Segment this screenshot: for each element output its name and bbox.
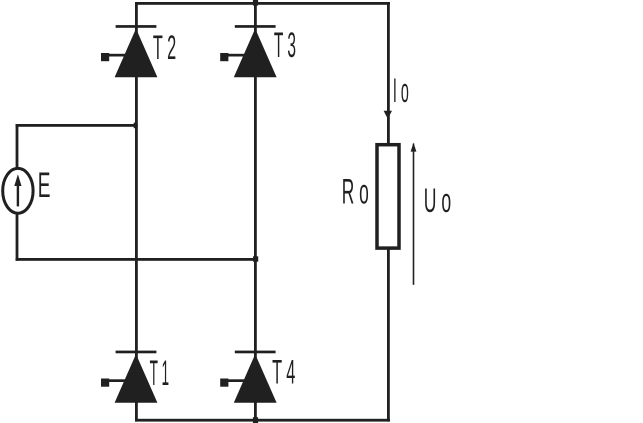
- arrow Io current direction: [384, 111, 392, 119]
- wire middle branch vertical: [254, 0, 257, 423]
- node bottom junction dot: [253, 417, 258, 423]
- wire E positive horizontal: [16, 124, 138, 127]
- wire right branch vertical: [387, 2, 390, 422]
- wire bottom bus: [135, 419, 390, 422]
- node top junction dot: [253, 0, 258, 6]
- svg-text:T 3: T 3: [274, 26, 296, 65]
- voltage source E: [3, 168, 33, 213]
- thyristor T4: [220, 351, 276, 403]
- svg-text:T 2: T 2: [153, 29, 176, 67]
- svg-text:I o: I o: [393, 71, 409, 110]
- thyristor T2: [101, 25, 157, 77]
- wire left branch vertical: [135, 2, 138, 422]
- svg-text:E: E: [38, 165, 51, 205]
- wire E lower vertical: [16, 214, 19, 261]
- node E negative to middle branch junction dot: [253, 256, 258, 261]
- svg-text:T 4: T 4: [272, 353, 295, 391]
- svg-text:R o: R o: [342, 172, 369, 211]
- wire E upper vertical: [16, 125, 19, 168]
- wire top bus: [135, 2, 390, 5]
- thyristor T3: [220, 25, 276, 77]
- resistor Ro: [377, 145, 399, 248]
- svg-text:U o: U o: [424, 182, 451, 220]
- arrow Uo voltage reference: [411, 143, 417, 285]
- thyristor T1: [101, 351, 157, 403]
- node E positive to left branch junction dot: [134, 123, 138, 129]
- wire E negative horizontal: [16, 258, 257, 261]
- svg-text:T 1: T 1: [150, 354, 169, 394]
